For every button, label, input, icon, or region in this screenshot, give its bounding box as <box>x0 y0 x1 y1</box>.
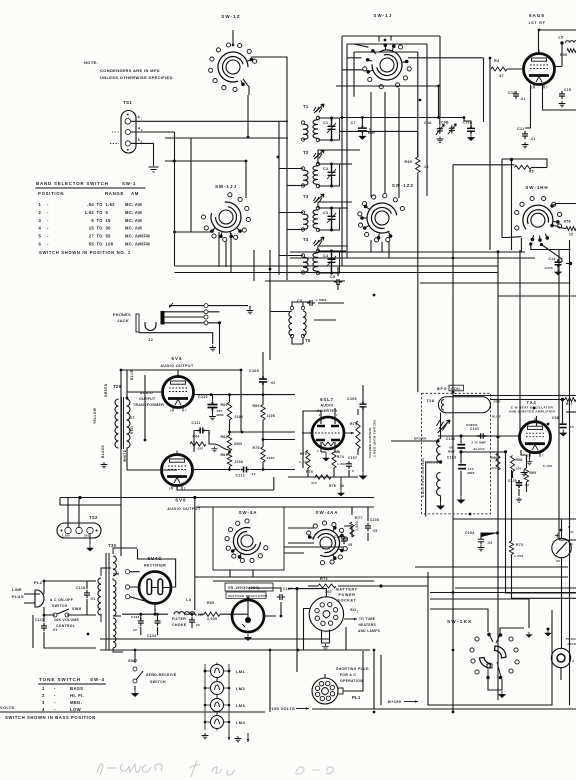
svg-text:2,000: 2,000 <box>207 617 217 621</box>
resistor R62 <box>227 435 231 451</box>
svg-text:RECTIFIER: RECTIFIER <box>144 564 166 568</box>
ground <box>526 460 532 465</box>
svg-text:SW-1ZZ: SW-1ZZ <box>392 183 414 188</box>
svg-text:L5: L5 <box>559 36 564 40</box>
svg-text:PHONES: PHONES <box>566 637 576 641</box>
svg-text:A C ON-OFF: A C ON-OFF <box>50 598 73 602</box>
svg-text:R68: R68 <box>516 458 523 462</box>
capacitor C104 <box>478 536 485 544</box>
svg-text:R62: R62 <box>221 435 228 439</box>
wire <box>481 533 498 537</box>
svg-text:TO: TO <box>97 210 104 215</box>
svg-text:1,200: 1,200 <box>299 460 308 464</box>
svg-text:OPERATION: OPERATION <box>340 679 363 683</box>
svg-text:UNLESS OTHERWISE SPECIFIED: UNLESS OTHERWISE SPECIFIED <box>100 75 173 80</box>
capacitor C118b <box>341 536 347 544</box>
svg-text:MC. AM/FM: MC. AM/FM <box>125 242 150 247</box>
lamp LM1 <box>211 665 224 678</box>
svg-text:C4: C4 <box>323 254 328 258</box>
winding T28 secondary <box>437 439 441 462</box>
wire <box>362 385 364 472</box>
svg-text:.54: .54 <box>87 202 94 207</box>
svg-text:2: 2 <box>170 409 172 413</box>
svg-text:55: 55 <box>89 242 95 247</box>
svg-text:C118: C118 <box>76 586 85 590</box>
svg-text:TO TUBE: TO TUBE <box>359 617 375 621</box>
resistor R56 <box>566 227 576 231</box>
svg-text:7: 7 <box>185 409 187 413</box>
tube V3 6V6 <box>162 455 193 486</box>
svg-text:CHOKE: CHOKE <box>172 623 187 627</box>
svg-text:MC. AM/FM: MC. AM/FM <box>125 234 150 239</box>
svg-text:AUDIO OUTPUT: AUDIO OUTPUT <box>167 507 201 511</box>
svg-text:SW8: SW8 <box>72 607 81 611</box>
ground <box>132 690 138 697</box>
svg-text:10K VOLUME: 10K VOLUME <box>54 618 80 622</box>
svg-text:7: 7 <box>336 413 338 417</box>
svg-text:3 30 MMF: 3 30 MMF <box>472 441 487 445</box>
resistor R60 <box>227 402 231 420</box>
wire bus <box>232 30 234 45</box>
svg-text:6SL7: 6SL7 <box>320 397 334 402</box>
svg-text:C9A: C9A <box>424 121 432 125</box>
svg-text:.02: .02 <box>270 381 275 385</box>
wire <box>139 306 213 344</box>
resistor R63 <box>227 453 231 467</box>
svg-text:TO: TO <box>97 218 104 223</box>
svg-text:L3: L3 <box>186 597 192 602</box>
capacitor C134 <box>155 618 161 626</box>
ground <box>245 634 251 641</box>
svg-text:15: 15 <box>424 165 429 169</box>
svg-text:6: 6 <box>39 242 42 247</box>
wire <box>208 306 248 354</box>
svg-text:SW-4AA: SW-4AA <box>316 510 339 515</box>
svg-text:C14: C14 <box>549 257 556 261</box>
ground <box>338 490 344 496</box>
svg-text:C2: C2 <box>323 167 328 171</box>
capacitor C118 <box>84 590 90 598</box>
svg-text:R60: R60 <box>221 403 228 407</box>
svg-text:YELLOW: YELLOW <box>425 461 439 465</box>
svg-text:VOLTS: VOLTS <box>0 705 14 710</box>
svg-text:TS1: TS1 <box>123 100 132 105</box>
svg-text:47: 47 <box>499 74 504 78</box>
svg-text:FOR A C: FOR A C <box>340 673 356 677</box>
phones jack bottom J3 <box>551 648 570 667</box>
svg-text:6: 6 <box>181 375 183 379</box>
svg-text:VOLUME CONTROL: VOLUME CONTROL <box>368 427 372 458</box>
resistor R65 <box>204 612 220 616</box>
S meter M1 <box>552 538 571 557</box>
svg-text:5,100: 5,100 <box>543 464 553 468</box>
svg-text:C102: C102 <box>446 437 455 441</box>
ground <box>437 137 444 143</box>
resistor R70 <box>306 450 310 468</box>
svg-text:YELLOW: YELLOW <box>93 407 97 424</box>
svg-text:MMF: MMF <box>217 413 225 417</box>
svg-text:PLUG: PLUG <box>12 595 24 599</box>
svg-text:6: 6 <box>538 420 540 424</box>
svg-text:SWITCH SHOWN IN POSITION N: SWITCH SHOWN IN POSITION NO. 1 <box>39 250 131 255</box>
svg-text:1,000: 1,000 <box>514 554 524 558</box>
wire <box>131 121 288 266</box>
ground <box>468 134 474 141</box>
svg-text:BAND SELECTOR SWITCH: BAND SELECTOR SWITCH <box>36 181 109 186</box>
svg-text:-: - <box>54 693 56 698</box>
svg-text:C133: C133 <box>131 615 140 619</box>
svg-text:T5: T5 <box>305 338 311 343</box>
svg-text:C9B: C9B <box>441 121 449 125</box>
svg-text:SW-1HH: SW-1HH <box>525 185 548 190</box>
svg-text:-: - <box>47 218 49 223</box>
svg-text:MC. AM: MC. AM <box>125 202 142 207</box>
handwriting <box>97 764 162 775</box>
ground <box>359 472 366 479</box>
svg-text:JACK: JACK <box>117 319 129 323</box>
svg-text:.0056: .0056 <box>544 266 553 270</box>
wire <box>212 395 214 414</box>
svg-text:R70: R70 <box>300 452 307 456</box>
ground <box>499 691 505 698</box>
svg-text:SW7: SW7 <box>128 658 138 663</box>
svg-text:-: - <box>47 226 49 231</box>
svg-text:PHONES: PHONES <box>113 313 131 317</box>
svg-text:C7: C7 <box>351 121 356 125</box>
svg-text:FILTER: FILTER <box>172 617 186 621</box>
svg-text:LM3: LM3 <box>236 703 245 708</box>
wire <box>288 452 358 477</box>
svg-text:SW-4A: SW-4A <box>239 510 258 515</box>
resistor R90 <box>416 157 420 173</box>
svg-text:1: 1 <box>42 686 45 691</box>
svg-text:R63: R63 <box>221 453 228 457</box>
svg-text:.01: .01 <box>90 597 95 601</box>
slug tuning arrow <box>438 420 451 433</box>
svg-text:4: 4 <box>39 226 42 231</box>
small marks <box>235 736 242 742</box>
svg-text:SWITCH SHOWN IN BASS POSIT: SWITCH SHOWN IN BASS POSITION <box>5 715 96 720</box>
BFO dashed box <box>422 393 491 514</box>
svg-text:R80: R80 <box>253 404 260 408</box>
svg-text:C115: C115 <box>35 618 44 622</box>
svg-text:1,500: 1,500 <box>62 534 70 538</box>
resistor R68 <box>510 456 514 472</box>
svg-text:CT: CT <box>130 416 135 420</box>
ground <box>209 345 216 351</box>
svg-text:.05: .05 <box>347 543 352 547</box>
ground <box>209 414 216 420</box>
svg-text:1.62: 1.62 <box>85 210 95 215</box>
svg-text:2: 2 <box>39 210 42 215</box>
switch box <box>213 507 284 570</box>
wire <box>302 408 358 468</box>
svg-text:BLUE: BLUE <box>492 415 501 419</box>
svg-text:C103: C103 <box>447 456 456 460</box>
svg-text:J: J <box>572 659 574 663</box>
svg-text:GREEN: GREEN <box>466 423 478 427</box>
svg-text:C110: C110 <box>198 395 208 399</box>
svg-text:T29: T29 <box>113 384 122 389</box>
capacitor C133 <box>138 618 144 626</box>
tube V7 VR-150 <box>225 583 273 591</box>
resistor R67 <box>565 398 576 402</box>
svg-text:2: 2 <box>527 454 529 458</box>
svg-text:T2: T2 <box>303 150 309 155</box>
ground <box>560 430 566 437</box>
svg-text:-: - <box>54 686 56 691</box>
ground <box>149 167 159 172</box>
svg-text:C101: C101 <box>470 427 479 431</box>
svg-text:C118: C118 <box>334 535 343 539</box>
svg-text:R72: R72 <box>320 577 328 581</box>
capacitor C112 <box>241 467 249 473</box>
svg-text:PL1: PL1 <box>352 695 361 700</box>
svg-text:PL2: PL2 <box>34 580 43 585</box>
svg-text:T28: T28 <box>427 398 435 403</box>
capacitor C108 <box>365 523 371 531</box>
svg-text:T3: T3 <box>303 194 309 199</box>
svg-text:3300: 3300 <box>234 442 243 446</box>
svg-text:-: - <box>54 707 56 712</box>
svg-text:500: 500 <box>84 534 90 538</box>
svg-text:LM1: LM1 <box>236 669 245 674</box>
svg-text:R90: R90 <box>405 160 413 164</box>
lamp LM3 <box>211 699 224 712</box>
svg-text:6V6: 6V6 <box>175 498 186 503</box>
wire <box>205 671 229 722</box>
resistor R79 <box>261 447 265 462</box>
svg-text:0: 0 <box>352 469 354 473</box>
svg-text:T1: T1 <box>303 104 309 109</box>
svg-text:6 BFO PITCH CONTROL: 6 BFO PITCH CONTROL <box>421 457 425 497</box>
svg-text:.01: .01 <box>520 97 526 101</box>
capacitor C136 <box>189 617 195 625</box>
svg-text:C1: C1 <box>323 121 328 125</box>
svg-text:HI. FI.: HI. FI. <box>70 693 84 698</box>
svg-text:5: 5 <box>39 234 42 239</box>
svg-text:BATTERY: BATTERY <box>336 588 357 592</box>
svg-text:1.62: 1.62 <box>106 202 116 207</box>
svg-text:3: 3 <box>42 700 45 705</box>
svg-text:-: - <box>54 700 56 705</box>
svg-text:POSITION: POSITION <box>38 191 64 196</box>
resistor R66 <box>496 453 500 470</box>
svg-text:SWITCH: SWITCH <box>52 604 68 608</box>
terminals T30 secondary <box>125 570 129 574</box>
arrow <box>228 728 230 740</box>
svg-text:1,000: 1,000 <box>355 521 359 531</box>
svg-text:7A4: 7A4 <box>526 400 536 405</box>
svg-text:JACK: JACK <box>567 642 576 646</box>
capacitor C117 <box>277 594 285 600</box>
svg-text:TO: TO <box>97 234 104 239</box>
svg-text:1 MMF: 1 MMF <box>316 298 327 302</box>
svg-text:C11: C11 <box>517 127 524 131</box>
svg-text:AM: AM <box>131 191 139 196</box>
svg-text:SEND-RECEIVE: SEND-RECEIVE <box>146 673 177 677</box>
svg-text:CONDENSERS ARE IN MFD: CONDENSERS ARE IN MFD <box>100 68 160 73</box>
svg-text:R73: R73 <box>516 543 523 547</box>
potentiometer R73 volume <box>356 421 360 449</box>
wire <box>110 132 121 143</box>
svg-text:1,200: 1,200 <box>337 462 346 466</box>
capacitor C15 <box>559 91 565 99</box>
svg-text:220K: 220K <box>235 415 244 419</box>
svg-text:J2: J2 <box>148 337 154 342</box>
svg-text:.01: .01 <box>530 137 535 141</box>
svg-text:100: 100 <box>325 590 332 594</box>
svg-text:SW-1: SW-1 <box>122 181 136 186</box>
svg-text:R56: R56 <box>564 220 571 224</box>
svg-text:TO: TO <box>97 242 104 247</box>
svg-text:C15: C15 <box>564 88 571 92</box>
svg-text:20: 20 <box>133 628 137 632</box>
wire <box>206 431 230 451</box>
capacitor C11 <box>522 131 528 139</box>
resistor R77 <box>350 522 354 537</box>
svg-text:C107: C107 <box>348 456 357 460</box>
svg-text:20: 20 <box>196 623 200 627</box>
svg-text:WHITE: WHITE <box>123 449 127 462</box>
resistor R72 <box>318 584 336 588</box>
svg-text:27: 27 <box>89 234 95 239</box>
wire <box>391 413 519 517</box>
svg-text:7: 7 <box>542 454 544 458</box>
wire <box>60 498 374 611</box>
svg-text:-: - <box>47 234 49 239</box>
svg-text:C100: C100 <box>508 479 517 483</box>
svg-text:AND S-METER AMPLIFIER: AND S-METER AMPLIFIER <box>509 409 556 413</box>
lamp LM2 <box>211 682 224 695</box>
ground <box>478 545 485 551</box>
svg-text:LM4: LM4 <box>236 720 245 725</box>
svg-text:C106: C106 <box>347 397 357 401</box>
svg-text:C13: C13 <box>508 91 516 95</box>
capacitor C13 <box>513 91 519 99</box>
svg-text:.02: .02 <box>251 472 256 476</box>
svg-text:470: 470 <box>491 466 497 470</box>
svg-text:R64: R64 <box>193 435 200 439</box>
svg-text:.5 MEG (WITH SWITCH): .5 MEG (WITH SWITCH) <box>373 420 377 458</box>
svg-text:C134: C134 <box>147 634 157 638</box>
svg-text:15: 15 <box>569 233 573 237</box>
svg-text:AUDIO OUTPUT: AUDIO OUTPUT <box>160 364 194 368</box>
svg-text:BFO: BFO <box>437 387 447 391</box>
svg-text:TONE SWITCH: TONE SWITCH <box>39 677 81 682</box>
rotary switch SW-1J <box>363 43 412 88</box>
svg-text:C111: C111 <box>192 421 201 425</box>
svg-text:15: 15 <box>89 226 95 231</box>
svg-text:+150 VOLTS: +150 VOLTS <box>269 706 295 711</box>
capacitor C115 <box>41 623 47 631</box>
svg-text:-: - <box>47 210 49 215</box>
wire <box>288 589 346 672</box>
ground <box>322 644 328 650</box>
svg-text:BLACK: BLACK <box>101 444 105 458</box>
svg-text:R77: R77 <box>355 516 363 520</box>
svg-text:SW-1JJ: SW-1JJ <box>215 184 237 189</box>
svg-text:NOTE:: NOTE: <box>84 60 98 65</box>
svg-text:SW-1J: SW-1J <box>373 13 392 18</box>
ground <box>89 534 91 545</box>
ground <box>323 455 329 461</box>
svg-text:C98: C98 <box>552 416 559 420</box>
resistor R80 <box>261 405 265 420</box>
svg-text:R79: R79 <box>253 446 260 450</box>
svg-text:55: 55 <box>106 234 112 239</box>
svg-text:M: M <box>570 542 573 546</box>
svg-text:6AG5: 6AG5 <box>529 13 545 18</box>
svg-text:TS2: TS2 <box>89 515 98 520</box>
svg-text:SW-4: SW-4 <box>90 677 105 682</box>
svg-text:MC. AM: MC. AM <box>125 210 142 215</box>
svg-text:.05: .05 <box>372 529 377 533</box>
svg-text:220K: 220K <box>267 414 276 418</box>
svg-text:5: 5 <box>91 218 94 223</box>
svg-text:RED: RED <box>494 400 501 404</box>
svg-text:R66: R66 <box>491 456 498 460</box>
svg-text:LOW: LOW <box>70 707 82 712</box>
wire <box>194 420 295 452</box>
svg-text:C112: C112 <box>236 474 245 478</box>
svg-text:5: 5 <box>106 210 109 215</box>
svg-text:15: 15 <box>106 218 112 223</box>
svg-text:BLACK: BLACK <box>474 447 486 451</box>
svg-text:BASS: BASS <box>70 686 83 691</box>
svg-text:C109: C109 <box>249 369 259 373</box>
svg-text:108: 108 <box>106 242 114 247</box>
svg-text:C104: C104 <box>465 531 475 535</box>
svg-text:R69: R69 <box>530 471 537 475</box>
svg-text:2: 2 <box>169 487 171 491</box>
svg-text:BROWN: BROWN <box>414 437 427 441</box>
resistor R74 <box>332 452 336 468</box>
coil L5 <box>566 41 576 43</box>
capacitor C14 <box>555 259 562 267</box>
svg-text:CONTROL: CONTROL <box>56 624 75 628</box>
svg-text:MC. AM: MC. AM <box>125 226 142 231</box>
svg-text:SW-1KK: SW-1KK <box>447 619 473 624</box>
svg-text:-: - <box>47 202 49 207</box>
wire <box>344 618 357 620</box>
svg-text:TO: TO <box>97 226 104 231</box>
svg-text:C108: C108 <box>370 518 379 522</box>
svg-text:T4: T4 <box>303 237 309 242</box>
wire <box>490 400 565 424</box>
svg-text:100: 100 <box>516 467 522 471</box>
svg-text:6: 6 <box>542 52 544 56</box>
svg-text:-: - <box>47 242 49 247</box>
tube V1 6AG5 <box>524 54 555 85</box>
svg-text:SO: SO <box>350 607 356 612</box>
svg-text:1: 1 <box>39 202 42 207</box>
svg-text:R65: R65 <box>207 601 215 605</box>
svg-text:BLUE: BLUE <box>130 369 134 380</box>
svg-text:OUTPUT: OUTPUT <box>139 397 156 401</box>
resistor R55 <box>567 49 576 53</box>
terminals <box>204 304 208 308</box>
svg-text:470: 470 <box>311 481 317 485</box>
svg-text:2: 2 <box>531 86 533 90</box>
svg-text:4: 4 <box>42 707 45 712</box>
svg-text:C3: C3 <box>323 211 328 215</box>
svg-text:RED: RED <box>130 426 134 434</box>
svg-text:LINE: LINE <box>12 588 22 592</box>
svg-text:1ST RF: 1ST RF <box>528 21 545 25</box>
ground <box>359 133 365 140</box>
svg-text:10: 10 <box>570 425 574 429</box>
